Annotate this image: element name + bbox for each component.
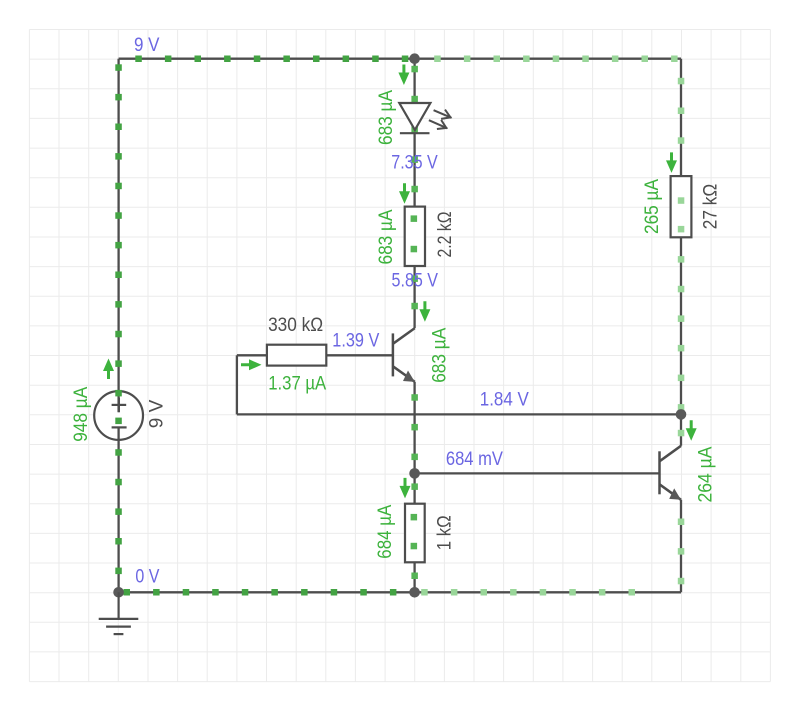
current arrow 683uA down above 2.2k	[399, 183, 410, 204]
wire dashes: 948uA top rail left segment	[135, 56, 408, 63]
current arrow 948uA up at battery	[103, 359, 114, 380]
svg-text:9 V: 9 V	[134, 35, 160, 56]
wire: top junction to LED anode	[413, 59, 415, 103]
svg-text:683 µA: 683 µA	[429, 328, 450, 383]
transistor Q2 NPN	[660, 446, 682, 500]
svg-text:2.2 kΩ: 2.2 kΩ	[435, 212, 456, 258]
svg-text:1 kΩ: 1 kΩ	[435, 515, 456, 550]
wire: 330k left lead corner vertical	[236, 355, 238, 414]
svg-text:0 V: 0 V	[135, 567, 159, 588]
junction node 1.84V	[676, 409, 687, 420]
ground symbol	[99, 592, 139, 634]
resistor R3 1 kOhm	[405, 504, 425, 563]
wire dashes: 683uA LED branch upper	[411, 66, 418, 309]
wire: 1.84V horizontal feedback wire	[237, 413, 681, 415]
wire: right rail top to 27k	[680, 59, 682, 176]
resistor R1 2.2k body dashes	[411, 215, 418, 252]
LED D1 light emission arrows	[430, 110, 451, 128]
resistor R2 27k body dashes	[678, 197, 685, 232]
current arrow 683uA down below 9V junction	[398, 65, 409, 86]
wire dashes: 264uA bottom rail right segment	[421, 589, 635, 596]
junction node 0V centre	[409, 587, 420, 598]
wire: resistor 1k to bottom rail	[413, 562, 415, 592]
current arrow 1.37uA right into 330k	[241, 359, 262, 370]
svg-text:684 mV: 684 mV	[446, 449, 503, 470]
current arrow 265uA down above 27k	[666, 152, 677, 173]
wire: 27k to 1.84V node	[680, 237, 682, 414]
wire dashes: 265uA top rail right segment	[434, 56, 677, 63]
wire: 1.84V node to Q2 collector	[680, 414, 682, 445]
battery V1 plus symbol	[112, 398, 127, 413]
svg-text:684 µA: 684 µA	[375, 505, 396, 559]
battery V1 internal leads	[117, 391, 119, 412]
svg-text:683 µA: 683 µA	[376, 90, 397, 145]
junction node 9V split	[409, 53, 420, 64]
wire dashes: 265uA right rail upper	[678, 78, 685, 411]
wire dashes: 948uA left rail	[115, 64, 122, 574]
transistor Q1 emitter arrow	[403, 371, 415, 382]
wire: top rail 9V from battery+ to right branch	[119, 58, 681, 60]
wire: Q2 emitter to bottom rail	[680, 500, 682, 593]
battery V1 internal dashes	[115, 390, 122, 424]
wire: 684mV node to Q2 base	[415, 472, 660, 474]
wire: resistor 2.2k to Q1 collector	[413, 266, 415, 328]
svg-text:5.85 V: 5.85 V	[392, 271, 439, 292]
svg-text:9 V: 9 V	[147, 400, 168, 429]
LED D1	[399, 103, 430, 133]
svg-text:27 kΩ: 27 kΩ	[701, 184, 722, 230]
resistor R1 2.2 kOhm	[405, 207, 425, 266]
current arrow 684uA down above 1k	[400, 478, 411, 499]
svg-text:1.37 µA: 1.37 µA	[268, 374, 326, 395]
battery V1 minus symbol	[112, 426, 127, 428]
svg-text:948 µA: 948 µA	[71, 387, 92, 442]
resistor R2 27 kOhm	[671, 176, 692, 237]
svg-text:1.84 V: 1.84 V	[480, 390, 529, 411]
svg-text:265 µA: 265 µA	[642, 179, 663, 234]
wire: corner to 330k resistor	[237, 354, 267, 356]
wire: left rail (battery branch)	[117, 59, 119, 593]
svg-text:330 kΩ: 330 kΩ	[268, 315, 323, 336]
wire: LED cathode to resistor 2.2k	[413, 133, 415, 206]
current arrow 264uA down at Q2 collector	[686, 420, 697, 441]
transistor Q2 emitter arrow	[669, 488, 681, 499]
wire dashes: 683uA emitter branch lower	[411, 394, 418, 579]
wire: 330k to Q1 base	[326, 354, 393, 356]
junction node 684mV	[409, 468, 420, 479]
junction node 0V ground	[113, 587, 124, 598]
svg-text:683 µA: 683 µA	[376, 209, 397, 264]
wire: Q1 emitter to 684mV node	[413, 382, 415, 504]
current arrow 683uA down at Q1 collector	[419, 301, 430, 322]
svg-text:1.39 V: 1.39 V	[332, 331, 379, 352]
battery V1 9V source circle	[94, 391, 143, 440]
transistor Q1 NPN	[393, 328, 415, 382]
wire: bottom rail 0V	[119, 591, 681, 593]
wire dashes: 948uA bottom rail left segment	[124, 589, 397, 596]
resistor R4 330 kOhm	[267, 345, 326, 366]
resistor R3 1k body dashes	[411, 514, 418, 549]
svg-text:264 µA: 264 µA	[695, 446, 716, 502]
svg-text:7.35 V: 7.35 V	[391, 153, 438, 174]
wire dashes: 264uA Q2 branch lower	[678, 430, 685, 585]
